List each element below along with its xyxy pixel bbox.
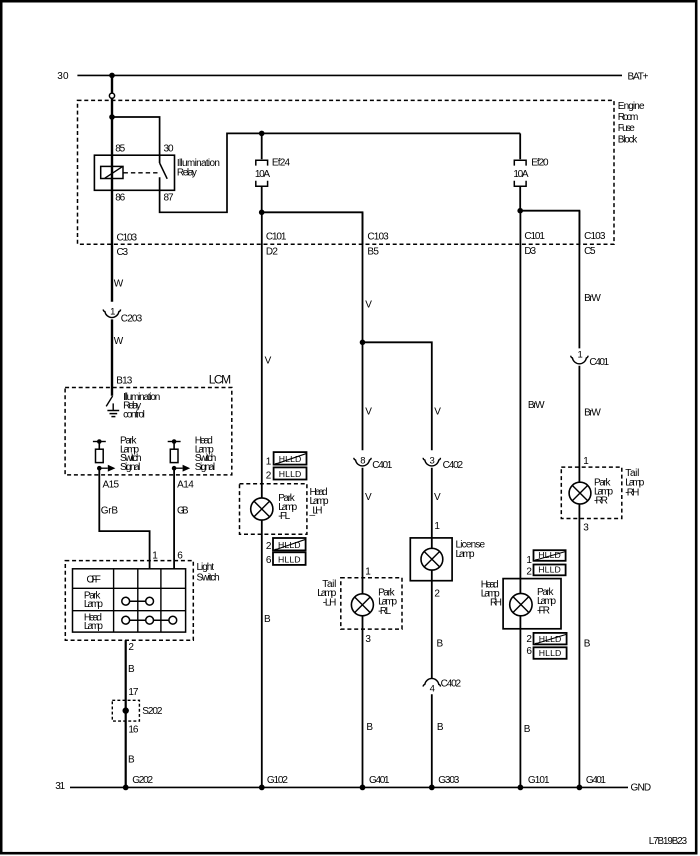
svg-text:C5: C5 <box>584 246 596 257</box>
svg-text:1: 1 <box>583 456 589 467</box>
wire C402 to license lamp <box>431 468 433 679</box>
svg-text:1: 1 <box>578 349 583 360</box>
connector C402 pin 3 in-line <box>430 456 435 467</box>
svg-text:_LH: _LH <box>309 506 323 517</box>
svg-text:GND: GND <box>631 783 652 794</box>
svg-text:RH: RH <box>490 598 502 609</box>
svg-text:-RR: -RR <box>594 496 608 507</box>
svg-text:85: 85 <box>115 143 125 154</box>
svg-text:C103: C103 <box>367 231 389 242</box>
svg-text:V: V <box>365 407 372 418</box>
svg-text:control: control <box>123 409 145 420</box>
svg-text:Ef20: Ef20 <box>531 157 549 168</box>
box license lamp <box>410 538 452 581</box>
svg-text:C3: C3 <box>117 247 129 258</box>
dashed box Light Switch <box>65 561 193 641</box>
connector label C103 / C3 <box>117 232 138 258</box>
wire battery bus 30 (BAT+) <box>77 74 622 76</box>
box head lamp RH <box>503 579 561 629</box>
node ground dot G101 <box>518 785 524 791</box>
svg-text:31: 31 <box>55 781 65 792</box>
wire branch to C103 B5 <box>262 212 363 244</box>
wire Ef20 output <box>519 186 521 211</box>
pin label 2 and HLLD connector (above FR) <box>526 567 532 578</box>
svg-text:Fuse: Fuse <box>618 123 635 134</box>
svg-text:B: B <box>264 614 271 625</box>
node junction dot license branch <box>360 340 366 346</box>
svg-text:C402: C402 <box>443 460 464 471</box>
svg-text:HLLD: HLLD <box>278 554 301 564</box>
pin label 2 and HLLD connector (above FL) <box>266 471 272 482</box>
wire branch to relay pin 30 <box>112 117 160 163</box>
svg-text:G303: G303 <box>438 775 459 786</box>
svg-text:G101: G101 <box>528 775 550 786</box>
label Tail Lamp -RH <box>625 468 644 498</box>
node junction dot below Ef24 <box>259 210 265 216</box>
svg-text:30: 30 <box>57 71 69 82</box>
LCM park lamp switch signal sensor <box>93 439 116 471</box>
svg-text:Signal: Signal <box>120 462 140 473</box>
svg-text:17: 17 <box>128 687 138 698</box>
svg-text:1: 1 <box>365 566 371 577</box>
svg-text:L7B19B23: L7B19B23 <box>649 836 688 847</box>
node splice dot S202 <box>123 707 129 713</box>
connector C402 pin 4 in-line <box>423 678 440 686</box>
svg-text:C101: C101 <box>266 231 287 242</box>
svg-text:C103: C103 <box>117 232 138 243</box>
svg-text:B: B <box>366 722 373 733</box>
pin label 6 and HLLD connector (below FL) <box>266 555 272 566</box>
svg-text:Lamp: Lamp <box>84 599 103 610</box>
label Tail Lamp -LH <box>317 579 336 608</box>
pin label 1 and HLLD connector (above FL) <box>266 456 272 467</box>
wire Ef24 output <box>261 186 263 212</box>
wire A15 GrB to light switch pin 1 <box>99 468 149 569</box>
node junction dot Ef24 tap <box>259 131 265 137</box>
label License Lamp <box>456 539 486 560</box>
wire ground bus 31 (GND) <box>70 786 628 788</box>
relay coil <box>101 166 123 178</box>
node ground dot G303 <box>429 785 435 791</box>
svg-text:V: V <box>434 492 441 503</box>
wire relay pin 87 output to fuses <box>160 133 521 212</box>
svg-text:6: 6 <box>177 550 183 561</box>
relay switch blade pin 30 to 87 <box>160 163 168 179</box>
label Light Switch <box>197 562 220 583</box>
svg-text:-LH: -LH <box>323 597 337 608</box>
connector open circle at fuse block entry <box>109 93 114 98</box>
wire C401 pin1 to tail lamp RH <box>578 366 580 788</box>
label Head Lamp -LH <box>309 487 329 517</box>
light switch head contacts <box>122 616 177 624</box>
svg-text:-FR: -FR <box>537 606 550 617</box>
wire A14 GB to light switch pin 6 <box>173 468 175 569</box>
svg-text:W: W <box>114 336 124 347</box>
connector C401 pin 1 in-line <box>578 349 583 360</box>
svg-text:10A: 10A <box>513 169 529 180</box>
wire branch to C103 C5 <box>520 211 579 245</box>
fuse Ef20 10A <box>514 160 526 186</box>
wire light switch pin 2 to ground G202 <box>125 640 127 787</box>
pin label 1 and HLLD connector (above FR) <box>526 555 532 566</box>
dashed box tail lamp LH <box>341 578 402 629</box>
wire branch to license lamp <box>363 342 432 450</box>
svg-text:LCM: LCM <box>209 372 231 386</box>
label Head Lamp row <box>84 613 103 632</box>
svg-text:1: 1 <box>152 550 158 561</box>
node junction dot below Ef20 <box>517 208 523 214</box>
wire Ef24 feed <box>261 133 263 159</box>
svg-text:GB: GB <box>177 506 189 517</box>
svg-text:HLLD: HLLD <box>279 469 302 479</box>
svg-text:V: V <box>365 300 372 311</box>
svg-text:Lamp: Lamp <box>84 621 103 632</box>
svg-text:30: 30 <box>164 143 174 154</box>
svg-text:2: 2 <box>526 567 532 578</box>
relay actuation dashed link <box>124 172 161 174</box>
svg-text:BrW: BrW <box>584 293 601 304</box>
node ground dot G401 (tail lamp RH) <box>577 785 583 791</box>
label Engine Room Fuse Block <box>618 101 645 145</box>
svg-text:G102: G102 <box>267 775 288 786</box>
node junction dot relay feed split <box>109 114 115 120</box>
svg-text:Signal: Signal <box>195 462 215 473</box>
svg-text:C203: C203 <box>121 313 143 324</box>
wire W feed from bus through relay coil to C203 <box>111 75 113 301</box>
svg-text:B5: B5 <box>367 247 379 258</box>
svg-text:1: 1 <box>434 521 440 532</box>
wire C101 D3 to park lamp FR and G101 <box>519 211 521 788</box>
ground symbol in LCM <box>107 403 119 416</box>
svg-text:B: B <box>524 724 531 735</box>
wire C103 C5 to tail lamp RH and G401 <box>578 211 580 349</box>
node junction dot bus-30 / illumination feed <box>109 73 115 79</box>
svg-text:G401: G401 <box>369 775 390 786</box>
label Park Lamp -RL <box>378 588 397 617</box>
relay U1 box Illumination Relay <box>94 155 174 190</box>
lamp Park Lamp -FL <box>251 498 273 520</box>
splice S202 dashed box <box>112 700 139 721</box>
svg-text:2: 2 <box>526 634 532 645</box>
svg-text:B13: B13 <box>116 375 132 386</box>
svg-text:C402: C402 <box>441 678 462 689</box>
pin label 2 and HLLD connector (below FL) <box>266 541 272 552</box>
svg-text:S202: S202 <box>142 706 163 717</box>
label Park Lamp row <box>84 591 103 610</box>
svg-text:16: 16 <box>128 725 138 736</box>
label Head Lamp RH <box>481 579 502 608</box>
svg-text:2: 2 <box>266 471 272 482</box>
connector C401 pin 8 in-line <box>360 456 365 467</box>
connector label C101 / D2 <box>266 231 287 257</box>
dashed box park lamp FL <box>240 484 307 535</box>
svg-text:B: B <box>128 754 135 765</box>
label Park Lamp -RR <box>594 477 613 506</box>
svg-text:A14: A14 <box>177 479 194 490</box>
wire C401 to tail lamp LH <box>362 468 364 788</box>
svg-text:Ef24: Ef24 <box>272 157 291 168</box>
svg-text:Relay: Relay <box>177 167 197 178</box>
lamp License Lamp <box>421 548 443 570</box>
svg-text:V: V <box>365 492 372 503</box>
connector C203 in-line <box>110 307 115 318</box>
node ground dot G202 <box>123 785 129 791</box>
svg-text:-RL: -RL <box>378 606 391 617</box>
svg-text:2: 2 <box>128 642 134 653</box>
dashed box Engine Room Fuse Block <box>78 100 615 244</box>
label Illumination Relay control <box>123 392 160 420</box>
svg-text:-RH: -RH <box>625 487 639 498</box>
svg-text:G401: G401 <box>586 775 606 786</box>
pin label 6 and HLLD connector (below FR) <box>526 646 532 657</box>
label Park Lamp Switch Signal <box>120 436 142 473</box>
svg-text:G202: G202 <box>132 775 153 786</box>
wire C103 B5 down to tail lamp LH and G401 <box>362 212 364 450</box>
svg-text:Room: Room <box>618 112 639 123</box>
svg-text:6: 6 <box>266 555 272 566</box>
wire C101 D2 to park lamp FL and G102 <box>261 212 263 787</box>
label Park Lamp -FR <box>537 587 556 616</box>
wire C402 pin 4 to G303 <box>431 694 433 787</box>
svg-text:OFF: OFF <box>87 574 101 585</box>
node ground dot G401 (tail lamp LH) <box>360 785 366 791</box>
svg-text:BAT+: BAT+ <box>628 72 649 83</box>
light switch table grid <box>73 569 186 632</box>
svg-text:Switch: Switch <box>197 572 220 583</box>
switch blade illumination relay control <box>106 396 112 406</box>
svg-text:10A: 10A <box>255 169 271 180</box>
svg-text:1: 1 <box>526 555 532 566</box>
svg-text:-FL: -FL <box>278 511 290 522</box>
label Illumination Relay <box>177 158 220 178</box>
svg-text:C101: C101 <box>524 231 545 242</box>
svg-text:Engine: Engine <box>618 101 645 112</box>
dashed box LCM <box>65 388 232 475</box>
svg-text:V: V <box>434 407 441 418</box>
svg-text:Block: Block <box>618 134 639 145</box>
svg-text:D3: D3 <box>524 246 536 257</box>
svg-text:A15: A15 <box>103 479 120 490</box>
lamp Park Lamp -RR <box>569 482 591 504</box>
svg-text:HLLD: HLLD <box>538 565 561 575</box>
svg-text:3: 3 <box>583 522 589 533</box>
connector label C103 / C5 <box>584 231 606 257</box>
svg-text:1: 1 <box>110 307 115 318</box>
svg-text:C401: C401 <box>372 460 392 471</box>
light switch park contacts <box>122 597 154 605</box>
svg-text:HLLD: HLLD <box>539 648 562 658</box>
svg-text:GrB: GrB <box>101 506 119 517</box>
svg-text:C401: C401 <box>589 357 609 368</box>
label Park Lamp -FL <box>278 493 297 522</box>
connector label C101 / D3 <box>524 231 545 257</box>
svg-text:B: B <box>437 722 444 733</box>
svg-text:Lamp: Lamp <box>456 549 475 560</box>
node ground dot G102 <box>259 785 265 791</box>
svg-text:87: 87 <box>164 193 174 204</box>
svg-text:V: V <box>265 356 272 367</box>
wire W lower to LCM <box>111 319 113 395</box>
svg-text:6: 6 <box>526 646 532 657</box>
svg-text:BrW: BrW <box>584 407 601 418</box>
svg-text:2: 2 <box>434 588 440 599</box>
svg-text:86: 86 <box>115 193 125 204</box>
svg-text:B: B <box>437 639 444 650</box>
svg-text:W: W <box>114 279 124 290</box>
lamp Park Lamp -FR <box>510 593 532 615</box>
fuse Ef24 10A <box>256 160 268 186</box>
dashed box tail lamp RH <box>561 467 622 518</box>
label Head Lamp Switch Signal <box>195 436 217 473</box>
connector label C103 / B5 <box>367 231 389 257</box>
svg-text:D2: D2 <box>266 247 278 258</box>
svg-text:4: 4 <box>430 683 435 694</box>
LCM head lamp switch signal sensor <box>168 439 191 471</box>
lamp Park Lamp -RL <box>351 594 373 616</box>
svg-text:B: B <box>584 638 591 649</box>
svg-text:B: B <box>128 664 135 675</box>
svg-text:3: 3 <box>365 634 371 645</box>
pin label 2 and HLLD connector (below FR) <box>526 634 532 645</box>
wire Ef20 feed down <box>519 133 521 159</box>
svg-text:1: 1 <box>266 456 272 467</box>
svg-text:C103: C103 <box>584 231 606 242</box>
svg-text:2: 2 <box>266 541 272 552</box>
svg-text:BrW: BrW <box>528 400 545 411</box>
